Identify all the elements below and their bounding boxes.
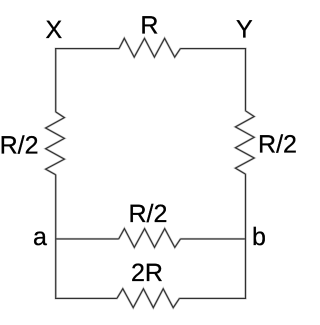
- resistor R/2 (middle, zigzag): [119, 229, 181, 248]
- svg-text:b: b: [252, 223, 266, 251]
- svg-text:Y: Y: [236, 15, 253, 43]
- svg-text:X: X: [46, 16, 63, 44]
- svg-text:2R: 2R: [131, 259, 163, 287]
- wire: bottom right corner to resistor 2R: [179, 297, 246, 299]
- svg-text:R/2: R/2: [258, 131, 297, 159]
- soft halo underlay of all wires (outer loop): [46, 38, 255, 307]
- resistor R/2 (left, zigzag): [46, 112, 65, 175]
- svg-text:R/2: R/2: [0, 132, 38, 160]
- soft halo underlay of middle wire a-b: [56, 229, 246, 248]
- wire: resistor R to node Y corner (top right): [180, 48, 246, 50]
- wire: left resistor R/2 up to node X corner: [55, 48, 57, 112]
- wire: middle resistor R/2 to node b: [181, 238, 246, 240]
- wire: node Y corner down to right resistor R/2: [245, 48, 247, 111]
- svg-text:a: a: [33, 223, 47, 251]
- wire: bottom left corner up through node a to left resistor R/2: [55, 175, 57, 299]
- svg-text:R/2: R/2: [128, 200, 167, 228]
- wire: node a to middle resistor R/2: [56, 238, 119, 240]
- svg-text:R: R: [140, 11, 158, 39]
- wire: right resistor R/2 through node b to bottom right corner: [245, 174, 247, 299]
- resistor R/2 (right, zigzag): [235, 111, 254, 174]
- wire: node X corner to resistor R (top left): [55, 48, 119, 50]
- resistor R (top, zigzag): [119, 38, 180, 57]
- resistor 2R (bottom, zigzag): [117, 289, 179, 308]
- wire: resistor 2R to bottom left corner: [55, 297, 117, 299]
